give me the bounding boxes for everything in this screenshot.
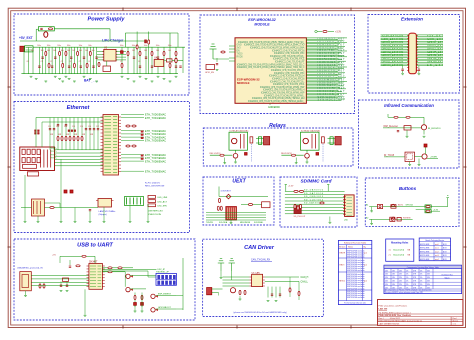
- svg-text:ESP32-EVB rev.fix ok: ESP32-EVB rev.fix ok: [347, 297, 364, 299]
- table column lines: [345, 245, 347, 301]
- second rail: [42, 121, 103, 123]
- svg-text:IRM_Receiver: IRM_Receiver: [384, 125, 399, 128]
- svg-text:4 x: 4 x: [389, 250, 392, 252]
- ext pin L14 wire: [381, 55, 409, 57]
- svg-text:1k5: 1k5: [168, 50, 171, 52]
- svg-text:+5V: +5V: [52, 254, 56, 256]
- ext pin R7 wire: [416, 44, 443, 46]
- svg-text:C11: C11: [48, 126, 51, 128]
- wire pair 1: [55, 149, 104, 151]
- pin mark 0: [141, 131, 143, 133]
- svg-text:(50ppm): (50ppm): [99, 214, 107, 216]
- section box: Extension: [368, 15, 460, 94]
- svg-text:100n: 100n: [47, 45, 51, 47]
- wire 3v3 tall run: [182, 258, 184, 310]
- resistor RP7: [139, 51, 141, 55]
- relay K2 body: [301, 132, 320, 150]
- terminal connector TB2: [335, 137, 341, 145]
- net label eth1: [121, 117, 144, 119]
- transistor QD: [151, 308, 155, 312]
- wire sd row 6: [285, 210, 345, 212]
- ground: [103, 221, 106, 223]
- svg-text:K2 RELAY 10A/250VAC: K2 RELAY 10A/250VAC: [301, 129, 321, 132]
- resistor RP3: [65, 51, 67, 55]
- tiny resistors bottom: [217, 206, 219, 210]
- wire vertical drop 9: [54, 47, 56, 73]
- svg-text:REV.I: REV.I: [340, 265, 345, 267]
- svg-text:GND/EPAD: GND/EPAD: [268, 106, 280, 109]
- svg-text:B1: B1: [366, 205, 368, 207]
- wire q out: [130, 275, 156, 277]
- resistor RTX2: [118, 267, 122, 269]
- wire vertical drop 11: [62, 47, 64, 73]
- svg-text:TPOUT+: TPOUT+: [50, 158, 57, 160]
- transistor Q6: [422, 154, 427, 159]
- wire vert 5: [69, 118, 71, 150]
- section box: Power Supply: [14, 14, 189, 95]
- transistor Q5: [421, 125, 426, 130]
- oscillator X1: [98, 199, 112, 208]
- transistor QC: [151, 294, 155, 298]
- red dot caps row A: [35, 130, 37, 132]
- svg-text:Infrared Communication: Infrared Communication: [384, 103, 434, 108]
- svg-text:SD_DAT0/IO2: SD_DAT0/IO2: [304, 189, 324, 192]
- transistor QA: [126, 274, 130, 278]
- ground relay r1: [223, 162, 226, 164]
- wire RXD: [102, 271, 125, 273]
- svg-text:IO14/TMS_NET: IO14/TMS_NET: [318, 56, 346, 58]
- ext pin L6 wire: [381, 42, 409, 44]
- wire 5v top: [60, 255, 82, 257]
- antenna ANT1: [212, 49, 214, 59]
- wire vert 2: [57, 118, 59, 150]
- svg-text:GPIO34: GPIO34: [406, 205, 414, 207]
- svg-text:1k9: 1k9: [85, 50, 88, 52]
- wire vertical drop 21: [93, 47, 95, 73]
- ext pin R2 wire: [416, 36, 443, 38]
- capacitor ccan2: [279, 293, 281, 295]
- wire usb d1: [37, 278, 89, 280]
- component DB2: [397, 217, 401, 221]
- capacitor C out: [179, 65, 181, 67]
- connector USB1: [20, 272, 32, 291]
- wire pair 6: [55, 165, 104, 167]
- svg-text:C12: C12: [56, 126, 59, 128]
- table: components derating: [384, 265, 462, 293]
- header row 2: [148, 204, 156, 207]
- wire vert 3: [61, 118, 63, 150]
- IC U2 LAN8710A: [103, 115, 119, 176]
- vertical 3v3: [387, 114, 389, 117]
- wire vert usb: [59, 256, 61, 263]
- ext pin L18 wire: [381, 61, 409, 63]
- capacitor CP2: [54, 56, 56, 58]
- wire to terminal 1: [256, 138, 264, 140]
- wire vertical drop 10: [59, 47, 61, 73]
- wire IR receive run: [383, 127, 421, 129]
- wire bottom runs: [21, 207, 32, 209]
- EN RC circuit: [221, 51, 225, 53]
- wire uext runs: [241, 204, 249, 206]
- svg-text:GPIO_EN: GPIO_EN: [205, 72, 214, 74]
- wire collector 2: [306, 150, 308, 153]
- svg-text:C17: C17: [96, 126, 99, 128]
- connector pins: [226, 208, 228, 220]
- svg-text:SD_CMD/IO15: SD_CMD/IO15: [304, 196, 324, 198]
- input protection: green outline: [38, 27, 54, 31]
- left pin 2: [229, 51, 235, 53]
- pin row 13 wire: [306, 54, 344, 56]
- ground: [54, 75, 57, 77]
- svg-text:100n: 100n: [132, 45, 136, 47]
- wire sig row 3: [206, 219, 266, 221]
- ext pin R17 wire: [416, 60, 443, 62]
- wire vertical drop 6: [45, 47, 47, 73]
- pin row 4 wire: [306, 41, 347, 43]
- ext pin L3 wire: [381, 37, 409, 39]
- ext pin R8 wire: [416, 45, 443, 47]
- ground can3: [220, 277, 223, 279]
- svg-text:CAN_H: CAN_H: [301, 276, 309, 279]
- resistor RQ1: [48, 63, 50, 67]
- svg-text:C8: C8: [138, 61, 140, 63]
- U5 pin stubs: [87, 265, 89, 267]
- ext pin R16 wire: [416, 58, 443, 60]
- svg-text:LiPo Charger: LiPo Charger: [102, 38, 124, 42]
- ext pin R10 wire: [416, 48, 443, 50]
- net label eth7: [121, 157, 144, 159]
- capacitor bottom: [89, 209, 91, 211]
- pin row 15 wire: [306, 57, 338, 59]
- resistor RQ3: [73, 63, 75, 67]
- svg-text:IO0/BOOT_NET: IO0/BOOT_NET: [318, 39, 346, 41]
- resistor RQ5: [121, 63, 123, 67]
- capacitor CQ1: [38, 65, 40, 67]
- pwr pin 3: [133, 198, 135, 205]
- wire 3.3V rail: [33, 46, 185, 48]
- ground: [163, 78, 166, 80]
- pullup resistors right: [126, 125, 130, 127]
- IR LED D5: [424, 144, 427, 147]
- table: packaging versions: [419, 238, 450, 261]
- svg-text:1k5: 1k5: [61, 50, 64, 52]
- svg-text:Grooves(3.3): Grooves(3.3): [393, 249, 404, 252]
- diode junction: [226, 194, 231, 199]
- svg-text:ESP32-EVB rev.fix ok: ESP32-EVB rev.fix ok: [347, 270, 364, 272]
- capacitor CU2: [60, 284, 62, 286]
- svg-text:ETH_TXD1/EMAC: ETH_TXD1/EMAC: [145, 117, 166, 120]
- svg-text:ESP32-EVB rev.fix ok: ESP32-EVB rev.fix ok: [347, 256, 364, 258]
- ground can2: [275, 300, 278, 302]
- svg-text:IO33/XN_NET: IO33/XN_NET: [318, 94, 346, 96]
- svg-text:rev.2: rev.2: [435, 250, 439, 253]
- snubber diode D2: [322, 137, 325, 143]
- resistor RP9: [163, 51, 165, 55]
- svg-text:1k8: 1k8: [79, 50, 82, 52]
- pin row 18 wire: [306, 62, 339, 64]
- svg-text:C15: C15: [80, 126, 83, 128]
- button arrow SW2: [391, 217, 395, 219]
- pin row 14 wire: [306, 56, 347, 58]
- ground b1: [370, 210, 373, 212]
- button SW1: [378, 204, 383, 208]
- transistor QB: [126, 287, 130, 291]
- usb pins: [31, 275, 36, 277]
- wire top drops: [220, 271, 222, 277]
- wire can drop 2: [275, 287, 277, 298]
- left pin 1: [229, 48, 235, 50]
- svg-text:3.3V/UEXT: 3.3V/UEXT: [221, 191, 232, 193]
- svg-text:REL1/GPIO: REL1/GPIO: [210, 153, 221, 155]
- res mid: [136, 45, 138, 49]
- capacitor CQ7: [151, 65, 153, 67]
- svg-text:+3.3V: +3.3V: [288, 186, 294, 188]
- header row 1: [148, 200, 156, 203]
- wire vert 7: [77, 118, 79, 150]
- jumper pad 1,4: [173, 281, 176, 285]
- svg-text:TPOUT+: TPOUT+: [50, 148, 57, 150]
- ext connector pin marks: [407, 35, 408, 37]
- pin row 43 wire: [306, 98, 345, 100]
- ground ir3: [408, 163, 411, 165]
- capacitor CP6: [133, 56, 135, 58]
- vertical to supply: [431, 206, 448, 208]
- capacitor CE3: [85, 128, 87, 130]
- svg-text:CAN Driver: CAN Driver: [244, 245, 275, 251]
- ground: [65, 75, 68, 77]
- svg-text:IO25/DAC1_NET: IO25/DAC1_NET: [318, 81, 346, 84]
- packaging grid rows: [419, 241, 450, 243]
- wire UEXT vcc vertical: [218, 187, 220, 197]
- ground ir1: [406, 135, 409, 137]
- wire vertical drop 7: [48, 47, 50, 73]
- wire vertical drop 5: [42, 47, 44, 73]
- wire button row 1: [369, 206, 415, 208]
- wire sig row 1: [206, 214, 266, 216]
- svg-text:Grooves(3.3): Grooves(3.3): [393, 254, 404, 257]
- svg-text:IO12/TDI_NET: IO12/TDI_NET: [318, 50, 346, 52]
- ext pin L11 wire: [381, 50, 409, 52]
- resistor RRX: [108, 271, 112, 273]
- wire can in 1: [223, 279, 250, 281]
- mid red component: [320, 202, 324, 204]
- IC U8 driver: [405, 152, 415, 161]
- resistor RT1: [57, 136, 59, 140]
- resistor rcan: [239, 290, 241, 294]
- section box: USB to UART: [14, 239, 195, 320]
- wire vertical drop 16: [77, 47, 79, 73]
- wire sd row 1: [285, 194, 345, 196]
- pin row 39 wire: [306, 92, 347, 94]
- svg-text:C0: C0: [27, 61, 29, 63]
- connector EXT1 body: [409, 33, 417, 73]
- svg-text:Notes: Notes: [348, 246, 353, 249]
- small pullup pair top: [294, 190, 298, 192]
- ext pin R9 wire: [416, 47, 443, 49]
- LED TX: [134, 303, 137, 306]
- svg-text:rev.3: rev.3: [435, 254, 439, 257]
- U2 pin stubs left: [101, 116, 104, 118]
- ground: [60, 221, 63, 223]
- jumper pad 0,2: [165, 275, 168, 279]
- svg-text:SD_CLK/IO14: SD_CLK/IO14: [304, 199, 324, 201]
- stacked pullup pair: [415, 206, 425, 208]
- ground relay r2: [295, 162, 298, 164]
- ground: [61, 80, 64, 82]
- jumper pad 1,1: [161, 281, 164, 285]
- ground ir2: [423, 135, 426, 137]
- U5 inner rows: [90, 265, 96, 267]
- top right pullup: [315, 30, 317, 32]
- capacitor CQ3: [68, 65, 70, 67]
- wire pair 3: [55, 155, 104, 157]
- wire vert 12: [97, 118, 99, 150]
- svg-text:R_PU 12k4/1%: R_PU 12k4/1%: [145, 183, 160, 185]
- ground: [175, 75, 178, 77]
- svg-text:IR_RX/GPIO: IR_RX/GPIO: [428, 128, 441, 130]
- ground: [157, 75, 160, 77]
- svg-text:REV.H: REV.H: [340, 253, 346, 255]
- wire qc out: [156, 295, 176, 297]
- wire Q6: [415, 156, 422, 158]
- big header band: [384, 265, 462, 268]
- left pin 0: [229, 45, 235, 47]
- table: Mounting Holes: [386, 239, 414, 261]
- svg-text:RXD0: RXD0: [237, 57, 244, 59]
- pin row 1 wire: [306, 37, 347, 39]
- pin row 7 wire: [306, 46, 345, 48]
- pin row 6 wire: [306, 44, 338, 46]
- SD connector contacts: [343, 196, 346, 198]
- pin row 36 wire: [306, 88, 346, 90]
- svg-text:1k3: 1k3: [47, 50, 50, 52]
- fuse FIN: [48, 28, 52, 30]
- ground: [44, 80, 47, 82]
- wire vertical drop 30: [163, 47, 165, 73]
- svg-text:nINT/REFCLKO: nINT/REFCLKO: [148, 211, 163, 213]
- svg-text:FGA: www.olimex.com/Products: FGA: www.olimex.com/Products: [379, 305, 408, 308]
- svg-text:SVP/ADC0_NET: SVP/ADC0_NET: [318, 96, 346, 99]
- svg-text:p.m: p.m: [364, 281, 367, 283]
- ground b2: [370, 223, 373, 225]
- led rel1: [245, 153, 248, 156]
- resistor ruext: [248, 204, 252, 206]
- svg-text:UEXT: UEXT: [232, 179, 246, 185]
- svg-text:IR_TX/U8: IR_TX/U8: [384, 155, 395, 157]
- wire connector runs: [212, 288, 223, 290]
- jumper pad 0,1: [161, 275, 164, 279]
- jumper pad 0,4: [173, 275, 176, 279]
- title block hlines: [378, 313, 463, 315]
- svg-text:1k2: 1k2: [41, 50, 44, 52]
- esd diodes: [39, 284, 41, 288]
- power connector green: [125, 197, 144, 206]
- ext pin R18 wire: [416, 61, 443, 63]
- connector CAN1: [207, 288, 212, 295]
- svg-text:MODULE: MODULE: [237, 81, 250, 85]
- transistor qcan: [230, 288, 235, 293]
- wire GND bottom rail: [21, 73, 178, 75]
- left pin 4: [229, 60, 235, 62]
- title block frame: [378, 300, 463, 326]
- ground can4: [239, 298, 242, 300]
- svg-text:K1 RELAY 10A/250VAC: K1 RELAY 10A/250VAC: [230, 129, 250, 132]
- svg-text:EN: EN: [237, 51, 241, 53]
- supply stub right: [327, 185, 329, 192]
- wire vertical drop 31: [169, 47, 171, 73]
- relay K1 body: [229, 132, 248, 150]
- ground: [121, 75, 124, 77]
- ferrite bead FB1: [219, 198, 221, 202]
- wire +5V rail: [20, 40, 150, 42]
- wire sig row 2: [206, 217, 266, 219]
- svg-text:USB to UART: USB to UART: [77, 243, 113, 249]
- wire can in 2: [223, 282, 250, 284]
- section box: SD/MMC Card: [280, 177, 357, 227]
- svg-text:XTAL1/CLKIN: XTAL1/CLKIN: [148, 213, 161, 216]
- title block vdivider right: [450, 317, 452, 326]
- wire vertical drop 28: [151, 47, 153, 73]
- svg-text:CH340T: CH340T: [89, 261, 98, 263]
- wire vertical drop 2: [28, 47, 30, 73]
- svg-text:p.m: p.m: [364, 265, 367, 267]
- capacitor CQ8: [175, 65, 177, 67]
- supply stub left: [285, 185, 287, 192]
- wire vertical drop 20: [89, 47, 91, 73]
- section box: CAN Driver: [203, 239, 324, 316]
- relay K2 coil: [303, 138, 308, 143]
- ground: [147, 221, 150, 223]
- transformer T1: [32, 199, 45, 216]
- resistor RL2: [141, 295, 143, 299]
- wire usb d0: [37, 275, 89, 277]
- terminal connector TB1: [264, 137, 270, 145]
- pin row 11 wire: [306, 51, 341, 53]
- RJ45 shield: [27, 172, 38, 176]
- pin mark 2: [141, 137, 143, 139]
- RJ45 contacts top: [22, 149, 25, 154]
- svg-text:ESP-WROOM-32: ESP-WROOM-32: [248, 18, 275, 22]
- red dot caps row B: [68, 130, 70, 132]
- wire vertical drop 22: [96, 47, 98, 73]
- capacitor CE4: [89, 128, 91, 130]
- wire vertical drop 26: [139, 47, 141, 73]
- ground: [83, 75, 86, 77]
- capacitor CE1: [49, 128, 51, 130]
- jumper pad 0,0: [157, 275, 160, 279]
- ground: [74, 221, 77, 223]
- capacitor CQ2: [51, 65, 53, 67]
- wire vertical drop 14: [70, 47, 72, 73]
- center tap caps: [57, 124, 59, 126]
- red comp mid: [145, 40, 147, 43]
- resistor RT7: [81, 136, 83, 140]
- svg-text:IO32/XP_NET: IO32/XP_NET: [318, 91, 346, 93]
- transformer windings: [33, 201, 35, 214]
- wire dcdc out: [164, 59, 166, 61]
- IC U5 CH340T: [89, 264, 103, 290]
- svg-text:C4: C4: [69, 61, 71, 63]
- SD connector inner pins: [347, 197, 353, 199]
- blue marks 2: [322, 144, 324, 162]
- U6 pin stubs: [249, 276, 251, 278]
- resistor RP10: [175, 51, 177, 55]
- transistor arrows: [131, 275, 133, 278]
- ext pin R20 wire: [416, 65, 443, 67]
- svg-text:IO23/MOSI_NET: IO23/MOSI_NET: [318, 79, 346, 81]
- ground: [73, 80, 76, 82]
- antenna 1: [220, 263, 222, 271]
